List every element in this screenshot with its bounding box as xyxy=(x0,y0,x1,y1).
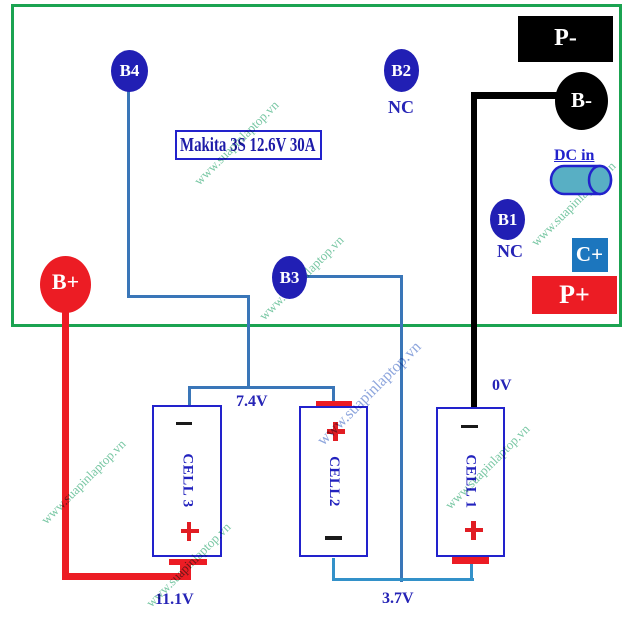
wire: B4 drop to 7.4V node xyxy=(247,295,250,388)
node 3.7V horizontal tie xyxy=(332,578,475,581)
wire: 7.4V node to CELL2 plus xyxy=(332,386,335,401)
pad B2 xyxy=(384,49,420,92)
wire: CELL2 minus drop xyxy=(332,558,335,581)
label 7.4V xyxy=(236,393,268,411)
terminal bar CELL1 plus xyxy=(452,557,490,564)
label NC at B2 xyxy=(388,97,414,118)
wire: CELL1 plus drop xyxy=(470,562,473,581)
label 0V xyxy=(492,377,512,395)
node 7.4V horizontal tie xyxy=(188,386,335,389)
label DC in xyxy=(554,147,594,165)
wire: B4 pad down (blue) xyxy=(127,91,130,296)
terminal B- xyxy=(555,72,608,130)
wire: 7.4V node to CELL3 minus xyxy=(188,386,191,406)
pad P+ xyxy=(532,276,617,314)
wire: black vertical to CELL1 minus xyxy=(471,92,477,407)
terminal bar CELL2 plus xyxy=(316,401,352,407)
wire: B3 drop to 3.7V node xyxy=(400,275,403,582)
wire: B4 horizontal (blue) xyxy=(127,295,250,298)
pad B3 xyxy=(272,256,307,299)
wire: B3 horizontal (blue) xyxy=(306,275,403,278)
wire: red riser to CELL3 plus terminal xyxy=(180,563,192,575)
cell CELL3 xyxy=(152,405,222,557)
pad B1 xyxy=(490,199,525,240)
connector DC in barrel xyxy=(548,163,618,199)
wire: B- horizontal (black) xyxy=(471,92,557,98)
cell CELL1 xyxy=(436,407,505,558)
wire: B+ vertical (red) xyxy=(62,308,69,577)
pad C+ xyxy=(572,238,608,272)
pad B4 xyxy=(111,50,148,92)
label NC at B1 xyxy=(497,241,523,262)
label 3.7V xyxy=(382,590,414,608)
pad P- xyxy=(518,16,613,62)
BMS board outline xyxy=(11,4,622,327)
terminal B+ xyxy=(40,256,91,313)
cell CELL2 xyxy=(299,406,369,558)
label box "Makita 3S 12.6V 30A" xyxy=(175,130,322,160)
wire: red bottom horizontal xyxy=(62,573,191,581)
terminal bar CELL3 plus xyxy=(169,559,207,565)
label 11.1V xyxy=(155,591,194,609)
